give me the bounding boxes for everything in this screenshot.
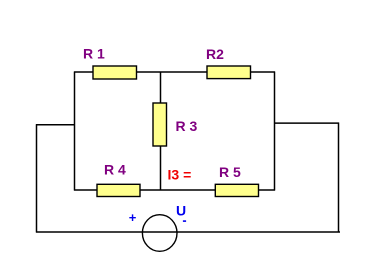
wire: top bus from left inner corner to right inner corner <box>74 71 275 73</box>
source U: minus terminal label <box>183 220 186 222</box>
svg-text:R 4: R 4 <box>104 162 126 178</box>
wire: middle vertical branch through R3 <box>160 72 162 190</box>
resistor R3 <box>153 103 198 146</box>
svg-text:I3 =: I3 = <box>168 167 192 183</box>
wire: bottom bus of bridge <box>74 189 275 191</box>
wire: right inner edge <box>274 72 276 191</box>
wire: right outer vertical <box>338 123 340 233</box>
svg-text:R2: R2 <box>206 46 224 62</box>
wire: right tap to outer loop <box>274 122 339 124</box>
svg-text:R 5: R 5 <box>219 164 241 180</box>
wire: bottom outer through source <box>36 231 340 233</box>
source U: circle <box>142 215 177 252</box>
resistor R4 <box>97 162 140 197</box>
svg-text:R 1: R 1 <box>83 46 105 62</box>
wire: left tap to outer loop <box>36 124 74 126</box>
svg-text:U: U <box>176 202 186 218</box>
svg-text:R 3: R 3 <box>176 118 198 134</box>
wire: left outer vertical <box>36 124 38 232</box>
resistor R5 <box>215 164 258 197</box>
resistor R1 <box>83 46 137 80</box>
resistor R2 <box>206 46 251 79</box>
wire: left inner edge <box>74 72 76 191</box>
svg-text:+: + <box>129 210 137 225</box>
